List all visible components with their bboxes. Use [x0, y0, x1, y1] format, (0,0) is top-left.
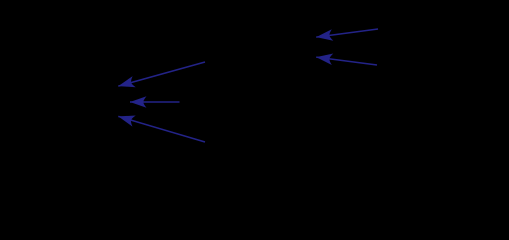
arrow 5 (left lower): [118, 116, 205, 142]
arrow 1 (top right, label to target): [316, 29, 378, 37]
arrow 3 (left upper): [118, 62, 205, 86]
arrow 4 (left middle, horizontal): [130, 101, 180, 103]
arrow 2 (right, second label): [316, 57, 377, 65]
